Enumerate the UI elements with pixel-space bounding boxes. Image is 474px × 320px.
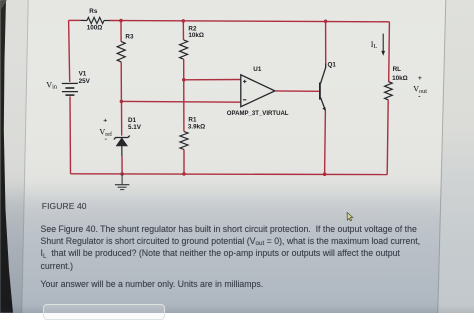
svg-text:RL: RL	[393, 66, 402, 73]
svg-text:U1: U1	[253, 66, 262, 73]
svg-text:D1: D1	[128, 117, 137, 124]
junction dot top rail / R2	[182, 19, 186, 23]
svg-text:3.9kΩ: 3.9kΩ	[188, 124, 205, 131]
svg-text:V1: V1	[79, 70, 87, 77]
wire: left rail lower (battery to bottom corner)	[69, 96, 72, 173]
mouse cursor	[347, 213, 353, 221]
wire: Q1 emitter to bottom rail	[324, 110, 327, 174]
page crease line left	[22, 0, 28, 313]
wire: R1 to bottom rail	[183, 150, 185, 174]
svg-text:100Ω: 100Ω	[87, 24, 103, 31]
node A junction (zener/R3/op-amp minus)	[120, 100, 124, 104]
IL current arrow	[381, 34, 385, 56]
wire: R3 to node A	[120, 62, 122, 102]
svg-text:+: +	[418, 75, 422, 82]
page crease line right	[438, 0, 446, 313]
svg-text:10kΩ: 10kΩ	[392, 75, 408, 82]
svg-text:5.1V: 5.1V	[128, 124, 142, 131]
ground	[115, 174, 129, 190]
wire: R2 to R1 through node B	[183, 59, 185, 131]
svg-text:IL: IL	[371, 40, 378, 50]
resistor Rs	[80, 17, 109, 23]
svg-text:Vin: Vin	[46, 80, 57, 90]
node B junction (divider to op-amp plus)	[182, 78, 186, 82]
zener diode D1	[114, 136, 130, 157]
svg-text:Q1: Q1	[328, 61, 337, 68]
junction dot bottom rail / zener	[120, 172, 124, 176]
wire: RL to bottom rail	[387, 100, 388, 175]
svg-text:25V: 25V	[79, 78, 91, 85]
transistor Q1	[320, 63, 326, 111]
wire: op-amp output to Q1 base	[275, 90, 319, 92]
wire: left rail upper (top corner to battery)	[69, 20, 70, 82]
wire: R2 branch from top rail	[182, 21, 184, 40]
svg-text:+: +	[103, 118, 107, 125]
svg-text:R3: R3	[125, 34, 134, 41]
wire: top rail left segment (Vin top to Rs)	[69, 19, 81, 21]
svg-text:-: -	[418, 93, 420, 100]
wire: bottom rail	[71, 173, 388, 176]
resistor R3	[117, 42, 125, 62]
wire: op-amp plus input from node B	[184, 79, 241, 81]
svg-text:OPAMP_3T_VIRTUAL: OPAMP_3T_VIRTUAL	[227, 111, 289, 117]
figure caption	[42, 201, 87, 211]
resistor R1	[180, 132, 188, 150]
svg-text:Rs: Rs	[89, 8, 98, 15]
op-amp U1	[241, 75, 275, 107]
wire: top rail Rs to right corner	[110, 21, 390, 22]
junction dot top rail / Q1 collector	[324, 20, 328, 24]
junction dot top rail / R3	[119, 19, 123, 23]
wire: Q1 collector branch from top rail	[325, 21, 327, 63]
wire: node A down to zener D1	[121, 101, 123, 135]
junction dot bottom rail / R1	[182, 172, 186, 176]
wire: op-amp minus input from node A	[121, 100, 240, 103]
svg-text:10kΩ: 10kΩ	[188, 32, 204, 39]
wire: zener to bottom rail	[121, 157, 123, 174]
wire: R3 branch from top rail	[120, 21, 122, 42]
svg-text:-: -	[105, 136, 107, 143]
battery V1	[62, 83, 78, 95]
svg-text:R1: R1	[188, 117, 197, 124]
junction dot bottom rail / Q1 emitter	[323, 172, 327, 176]
resistor R2	[180, 40, 188, 59]
wire: right rail upper (top corner down to RL)	[388, 22, 391, 82]
resistor RL	[385, 82, 393, 100]
answer input box	[43, 304, 165, 320]
question text	[41, 224, 417, 234]
